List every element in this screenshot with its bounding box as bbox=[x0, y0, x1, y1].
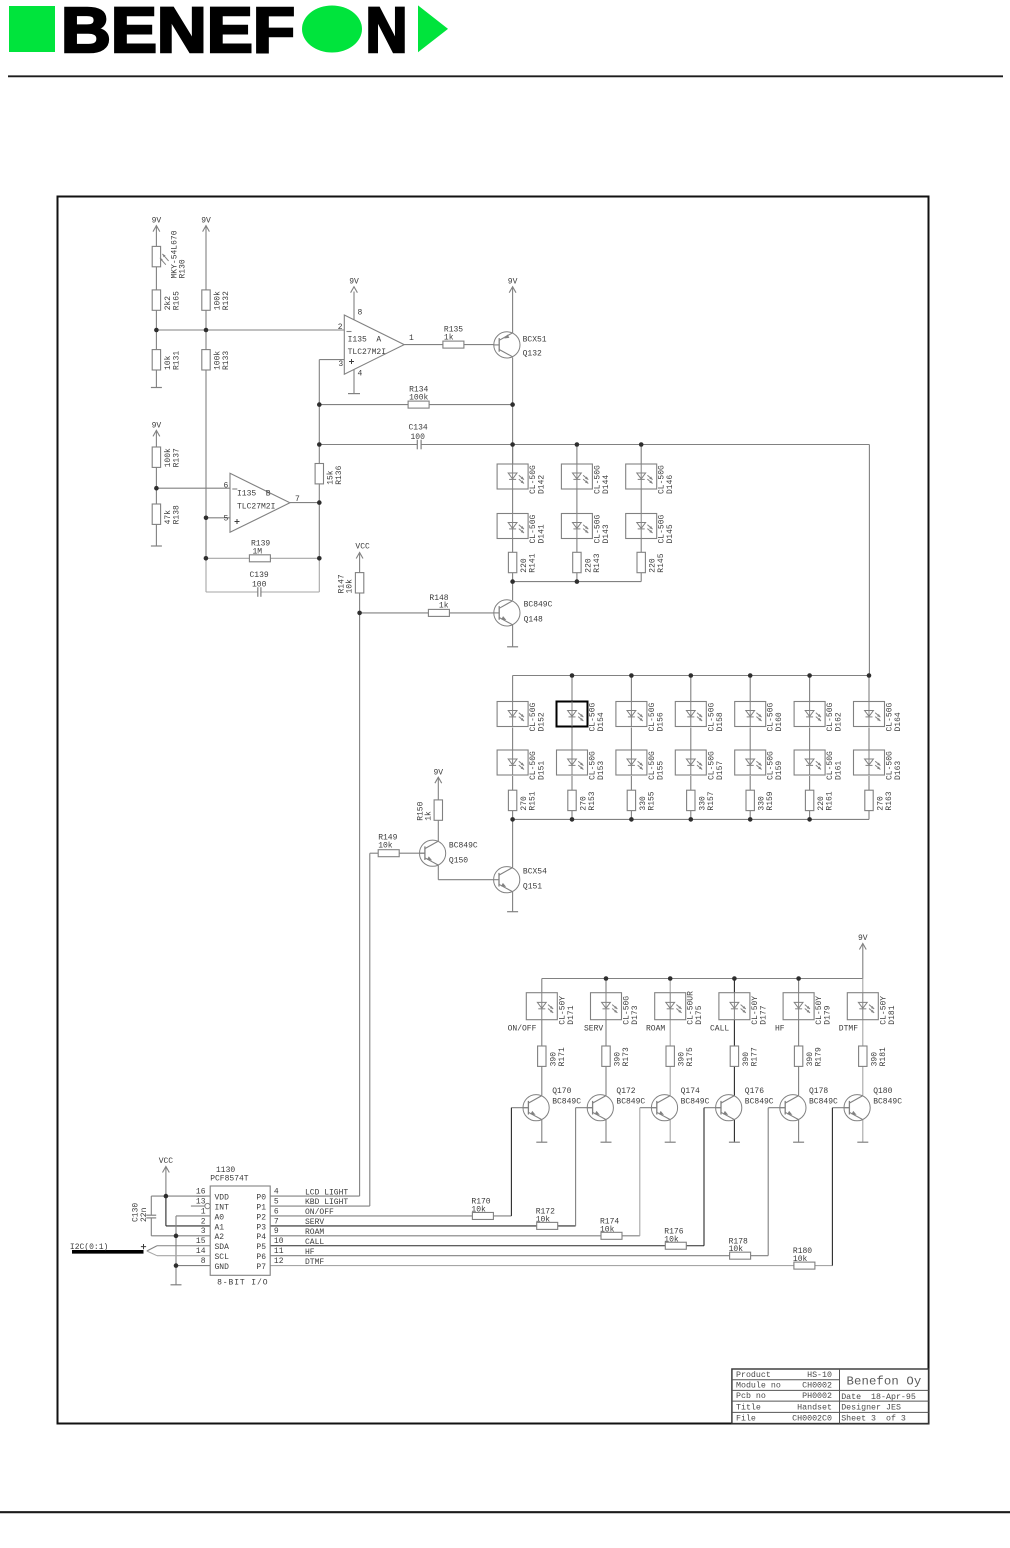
svg-text:I135 A: I135 A bbox=[348, 335, 382, 344]
svg-text:10k: 10k bbox=[729, 1245, 744, 1254]
svg-text:D142: D142 bbox=[538, 475, 547, 494]
svg-text:TLC27M2I: TLC27M2I bbox=[237, 503, 275, 512]
svg-text:File: File bbox=[736, 1414, 756, 1424]
svg-text:BC849C: BC849C bbox=[745, 1098, 774, 1107]
svg-text:Q174: Q174 bbox=[681, 1087, 700, 1096]
svg-text:VCC: VCC bbox=[159, 1157, 174, 1166]
svg-text:8-BIT I/O: 8-BIT I/O bbox=[217, 1279, 268, 1288]
svg-text:D181: D181 bbox=[888, 1005, 897, 1024]
svg-text:I2C(0:1): I2C(0:1) bbox=[70, 1243, 108, 1252]
svg-text:BC849C: BC849C bbox=[524, 601, 553, 610]
svg-text:R157: R157 bbox=[707, 791, 716, 810]
svg-text:C134: C134 bbox=[409, 424, 428, 433]
svg-text:N: N bbox=[366, 0, 408, 66]
svg-text:D161: D161 bbox=[835, 761, 844, 780]
svg-text:HF: HF bbox=[305, 1248, 315, 1257]
svg-text:R145: R145 bbox=[657, 553, 666, 572]
svg-text:1k: 1k bbox=[444, 333, 454, 342]
svg-text:ON/OFF: ON/OFF bbox=[305, 1208, 334, 1217]
svg-text:D146: D146 bbox=[666, 475, 675, 494]
svg-text:ROAM: ROAM bbox=[305, 1228, 324, 1237]
svg-text:BC849C: BC849C bbox=[873, 1098, 902, 1107]
svg-text:4: 4 bbox=[358, 370, 363, 379]
svg-text:D177: D177 bbox=[759, 1005, 768, 1024]
svg-text:9V: 9V bbox=[152, 421, 162, 430]
svg-text:R132: R132 bbox=[222, 291, 231, 310]
svg-text:R131: R131 bbox=[172, 351, 181, 370]
svg-text:Q180: Q180 bbox=[873, 1087, 892, 1096]
svg-text:BENEF: BENEF bbox=[61, 0, 295, 66]
svg-text:R181: R181 bbox=[879, 1047, 888, 1066]
svg-text:R141: R141 bbox=[529, 553, 538, 572]
svg-text:Q170: Q170 bbox=[552, 1087, 571, 1096]
svg-text:3: 3 bbox=[338, 360, 343, 369]
svg-text:D152: D152 bbox=[538, 712, 547, 731]
svg-text:D164: D164 bbox=[894, 712, 903, 731]
svg-text:SERV: SERV bbox=[305, 1218, 324, 1227]
svg-text:Module no: Module no bbox=[736, 1381, 781, 1391]
svg-text:SCL: SCL bbox=[215, 1253, 230, 1262]
svg-text:3: 3 bbox=[201, 1227, 206, 1236]
svg-text:D156: D156 bbox=[656, 712, 665, 731]
svg-text:BC849C: BC849C bbox=[616, 1098, 645, 1107]
svg-text:R173: R173 bbox=[622, 1047, 631, 1066]
svg-text:GND: GND bbox=[215, 1263, 230, 1272]
svg-text:D153: D153 bbox=[597, 761, 606, 780]
svg-text:16: 16 bbox=[196, 1188, 206, 1197]
svg-text:10k: 10k bbox=[536, 1215, 551, 1224]
svg-text:R133: R133 bbox=[222, 351, 231, 370]
svg-text:9V: 9V bbox=[508, 278, 518, 287]
svg-text:9V: 9V bbox=[152, 217, 162, 226]
svg-text:P5: P5 bbox=[256, 1243, 266, 1252]
svg-text:5: 5 bbox=[223, 514, 228, 523]
svg-text:Date 18-Apr-95: Date 18-Apr-95 bbox=[841, 1393, 916, 1402]
svg-text:10k: 10k bbox=[346, 579, 355, 594]
svg-text:R175: R175 bbox=[686, 1047, 695, 1066]
svg-text:CALL: CALL bbox=[305, 1238, 324, 1247]
svg-text:R137: R137 bbox=[172, 448, 181, 467]
svg-text:C139: C139 bbox=[250, 571, 269, 580]
svg-text:12: 12 bbox=[274, 1257, 284, 1266]
svg-text:R155: R155 bbox=[647, 791, 656, 810]
svg-text:1M: 1M bbox=[253, 547, 263, 556]
svg-text:Q172: Q172 bbox=[616, 1087, 635, 1096]
svg-text:R130: R130 bbox=[179, 259, 188, 278]
svg-text:1: 1 bbox=[201, 1207, 206, 1216]
svg-text:D179: D179 bbox=[824, 1005, 833, 1024]
svg-text:Product: Product bbox=[736, 1370, 771, 1380]
svg-text:Q132: Q132 bbox=[523, 350, 542, 359]
svg-text:11: 11 bbox=[274, 1247, 284, 1256]
svg-text:BC849C: BC849C bbox=[809, 1098, 838, 1107]
svg-text:10k: 10k bbox=[378, 841, 393, 850]
svg-text:Q176: Q176 bbox=[745, 1087, 764, 1096]
svg-text:Q178: Q178 bbox=[809, 1087, 828, 1096]
svg-text:P7: P7 bbox=[256, 1263, 266, 1272]
svg-text:A0: A0 bbox=[215, 1213, 225, 1222]
svg-text:R153: R153 bbox=[588, 791, 597, 810]
svg-text:D162: D162 bbox=[835, 712, 844, 731]
svg-text:BCX51: BCX51 bbox=[523, 336, 547, 345]
svg-text:R138: R138 bbox=[172, 505, 181, 524]
svg-text:Benefon Oy: Benefon Oy bbox=[847, 1375, 922, 1389]
svg-text:9V: 9V bbox=[433, 769, 443, 778]
svg-text:P6: P6 bbox=[256, 1253, 266, 1262]
svg-text:2: 2 bbox=[338, 323, 343, 332]
svg-text:KBD LIGHT: KBD LIGHT bbox=[305, 1198, 348, 1207]
svg-text:DTMF: DTMF bbox=[839, 1024, 858, 1033]
svg-text:LCD LIGHT: LCD LIGHT bbox=[305, 1188, 348, 1197]
svg-text:DTMF: DTMF bbox=[305, 1258, 324, 1267]
svg-text:D154: D154 bbox=[597, 712, 606, 731]
svg-text:8: 8 bbox=[201, 1257, 206, 1266]
svg-text:SERV: SERV bbox=[584, 1024, 603, 1033]
svg-text:D163: D163 bbox=[894, 761, 903, 780]
svg-text:BC849C: BC849C bbox=[681, 1098, 710, 1107]
svg-text:D155: D155 bbox=[656, 761, 665, 780]
svg-text:R177: R177 bbox=[750, 1047, 759, 1066]
svg-text:R179: R179 bbox=[815, 1047, 824, 1066]
svg-text:A2: A2 bbox=[215, 1233, 225, 1242]
svg-text:Designer JES: Designer JES bbox=[841, 1403, 901, 1413]
svg-text:1: 1 bbox=[409, 334, 414, 343]
svg-text:I135 B: I135 B bbox=[237, 489, 271, 498]
svg-text:D171: D171 bbox=[567, 1005, 576, 1024]
svg-text:D157: D157 bbox=[716, 761, 725, 780]
svg-text:D173: D173 bbox=[631, 1005, 640, 1024]
svg-text:SDA: SDA bbox=[215, 1243, 230, 1252]
svg-text:P4: P4 bbox=[256, 1233, 266, 1242]
svg-text:P2: P2 bbox=[256, 1213, 266, 1222]
svg-text:D143: D143 bbox=[602, 524, 611, 543]
svg-text:A1: A1 bbox=[215, 1223, 225, 1232]
svg-text:1130: 1130 bbox=[216, 1166, 235, 1175]
svg-text:Q148: Q148 bbox=[524, 616, 543, 625]
svg-text:CH0002C0: CH0002C0 bbox=[792, 1415, 832, 1424]
svg-text:CH0002: CH0002 bbox=[802, 1382, 832, 1391]
svg-text:R143: R143 bbox=[593, 553, 602, 572]
svg-text:D158: D158 bbox=[716, 712, 725, 731]
svg-text:5: 5 bbox=[274, 1197, 279, 1206]
svg-text:10: 10 bbox=[274, 1237, 284, 1246]
svg-text:R163: R163 bbox=[885, 791, 894, 810]
svg-text:9V: 9V bbox=[349, 278, 359, 287]
svg-text:BC849C: BC849C bbox=[552, 1098, 581, 1107]
svg-text:Q151: Q151 bbox=[523, 883, 542, 892]
svg-text:8: 8 bbox=[358, 309, 363, 318]
svg-text:D141: D141 bbox=[538, 524, 547, 543]
svg-text:CALL: CALL bbox=[710, 1024, 729, 1033]
svg-text:1k: 1k bbox=[424, 811, 433, 821]
svg-text:VCC: VCC bbox=[355, 543, 370, 552]
svg-text:7: 7 bbox=[295, 495, 300, 504]
svg-text:22n: 22n bbox=[140, 1207, 149, 1222]
svg-text:1k: 1k bbox=[439, 602, 449, 611]
svg-text:PCF8574T: PCF8574T bbox=[210, 1175, 249, 1184]
svg-text:D159: D159 bbox=[775, 761, 784, 780]
svg-text:BC849C: BC849C bbox=[449, 841, 478, 850]
svg-text:Handset: Handset bbox=[797, 1402, 832, 1412]
svg-text:R171: R171 bbox=[558, 1047, 567, 1066]
svg-text:D144: D144 bbox=[602, 475, 611, 494]
svg-text:ON/OFF: ON/OFF bbox=[508, 1024, 537, 1033]
svg-text:VDD: VDD bbox=[215, 1194, 230, 1203]
svg-text:6: 6 bbox=[274, 1207, 279, 1216]
svg-text:BCX54: BCX54 bbox=[523, 868, 547, 877]
svg-text:TLC27M2I: TLC27M2I bbox=[348, 348, 386, 357]
svg-text:10k: 10k bbox=[793, 1255, 808, 1264]
svg-text:9V: 9V bbox=[201, 217, 211, 226]
svg-text:R161: R161 bbox=[826, 791, 835, 810]
svg-text:Pcb no: Pcb no bbox=[736, 1391, 766, 1401]
svg-text:15: 15 bbox=[196, 1237, 206, 1246]
svg-text:Sheet 3 of 3: Sheet 3 of 3 bbox=[841, 1414, 906, 1424]
svg-text:D151: D151 bbox=[538, 761, 547, 780]
svg-text:Title: Title bbox=[736, 1402, 761, 1412]
svg-text:2: 2 bbox=[201, 1217, 206, 1226]
svg-text:14: 14 bbox=[196, 1247, 206, 1256]
svg-text:HF: HF bbox=[775, 1024, 785, 1033]
svg-text:P0: P0 bbox=[256, 1194, 266, 1203]
svg-text:7: 7 bbox=[274, 1217, 279, 1226]
svg-text:INT: INT bbox=[215, 1203, 230, 1212]
svg-text:10k: 10k bbox=[664, 1235, 679, 1244]
svg-text:R151: R151 bbox=[529, 791, 538, 810]
svg-text:R165: R165 bbox=[172, 291, 181, 310]
svg-text:D160: D160 bbox=[775, 712, 784, 731]
svg-text:D175: D175 bbox=[695, 1005, 704, 1024]
svg-text:D145: D145 bbox=[666, 524, 675, 543]
svg-text:100: 100 bbox=[252, 580, 267, 589]
svg-text:6: 6 bbox=[223, 481, 228, 490]
svg-text:9V: 9V bbox=[858, 934, 868, 943]
svg-text:4: 4 bbox=[274, 1188, 279, 1197]
svg-text:9: 9 bbox=[274, 1227, 279, 1236]
svg-text:HS-10: HS-10 bbox=[807, 1371, 832, 1380]
svg-text:R136: R136 bbox=[335, 465, 344, 484]
svg-text:PH0002: PH0002 bbox=[802, 1392, 832, 1401]
svg-text:Q150: Q150 bbox=[449, 856, 468, 865]
svg-text:13: 13 bbox=[196, 1197, 206, 1206]
svg-text:R159: R159 bbox=[766, 791, 775, 810]
svg-text:10k: 10k bbox=[600, 1225, 615, 1234]
svg-text:P3: P3 bbox=[256, 1223, 266, 1232]
svg-text:P1: P1 bbox=[256, 1203, 266, 1212]
svg-text:ROAM: ROAM bbox=[646, 1024, 665, 1033]
svg-text:100k: 100k bbox=[409, 393, 428, 402]
svg-text:100: 100 bbox=[411, 433, 426, 442]
svg-text:10k: 10k bbox=[471, 1205, 486, 1214]
